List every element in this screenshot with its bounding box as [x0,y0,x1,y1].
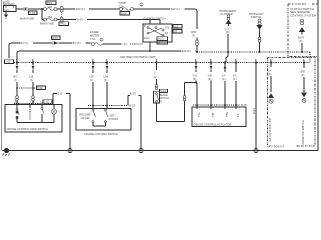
ground G1 (body ground) [2,148,10,156]
cruise control unit label [120,55,156,59]
svg-text:(F): (F) [192,34,195,38]
svg-text:FOR M/T: FOR M/T [296,2,307,6]
svg-text:B (I): B (I) [58,92,63,96]
connector gang B-03 cruise switch [88,104,136,108]
splice joint J1 [68,148,72,152]
svg-text:IGNITION SWITCH: IGNITION SWITCH [143,17,166,21]
svg-text:X-04: X-04 [121,11,127,15]
A/T control unit branch [268,93,274,141]
wire B/Y meter feed [9,41,52,58]
svg-text:SWITCH: SWITCH [251,15,261,19]
wire + inline connectors into main switch [16,88,35,105]
svg-text:B/R: B/R [301,70,305,74]
inhibitor switch branch [301,93,307,145]
wire B (I) main switch ground bracket [53,92,70,151]
svg-text:1-05: 1-05 [5,60,11,64]
unit pin 6 (actuator 1) [193,58,198,82]
svg-text:W/R (F): W/R (F) [171,7,180,11]
svg-text:Y/B: Y/B [208,74,212,78]
svg-text:L/Y: L/Y [226,27,230,31]
cruise control switch SW3 [76,109,131,136]
unit pin 8 (speed signal) [222,61,230,104]
FOR M/T dashed box [288,2,318,56]
page right border [317,0,319,151]
svg-text:MAIN FUSE: MAIN FUSE [20,17,34,21]
svg-text:ACC: ACC [144,36,150,40]
node actuator feed [195,82,197,105]
wire B/W (F) ignition feed to cruise unit [17,49,197,62]
instrument cluster [220,9,237,63]
unit pin 11 (A/T control) [268,58,273,92]
svg-text:CLUSTER: CLUSTER [221,12,233,16]
svg-text:METER: METER [90,33,99,37]
connector B-01 arrow [52,36,91,45]
svg-text:W (F): W (F) [77,18,84,22]
svg-text:X-02: X-02 [60,22,66,26]
svg-text:(F): (F) [268,72,271,76]
svg-text:L/R: L/R [90,75,94,79]
svg-text:B: B [158,40,160,44]
svg-text:(F): (F) [222,77,225,81]
brake switch S-04 [154,85,170,104]
svg-text:(I): (I) [90,78,93,82]
wires into ignition switch [149,19,160,24]
svg-text:ST: ST [174,29,178,33]
inline connector X-01 [24,7,42,15]
svg-text:L (F): L (F) [122,42,128,46]
svg-text:7.5A: 7.5A [90,37,96,41]
svg-text:B/Y: B/Y [14,75,18,79]
splice joint J3 [254,148,258,152]
connector gang B-02 main switch [16,86,45,90]
wire W/R (F) to stoplight feed [134,7,198,29]
wire ignition to B/W feed [149,42,151,52]
fuse STOP 15A [119,1,143,15]
unit pin 4 (L/W) [104,58,109,109]
svg-text:Y/G: Y/G [197,113,201,117]
resume/accel switch [80,109,96,126]
svg-text:2-02: 2-02 [44,100,50,104]
cruise control main switch SW2 [5,101,62,132]
label MAIN FUSE (fuse box) [40,22,54,26]
ground bus wire [2,150,318,152]
unit pin 10 (ground B) [252,58,257,151]
cruise control actuator M1 [192,103,247,127]
cruise control unit dotted line [14,62,310,64]
svg-text:12V: 12V [4,8,9,12]
svg-text:(I): (I) [14,78,17,82]
svg-text:B: B [144,24,146,28]
ignition switch label [143,17,166,21]
ignition switch SW1 [143,24,172,42]
svg-text:CRUISE CONTROL UNIT: CRUISE CONTROL UNIT [120,55,156,59]
svg-text:Y/L: Y/L [236,113,240,117]
svg-text:(F): (F) [299,39,302,43]
svg-text:(F): (F) [233,77,236,81]
svg-text:CONTROL SYSTEM: CONTROL SYSTEM [290,13,316,17]
svg-text:BTN: BTN [47,1,52,5]
svg-text:DIODE/: DIODE/ [90,30,99,34]
svg-text:W/R (F): W/R (F) [76,7,85,11]
svg-text:(I): (I) [104,78,107,82]
svg-text:IG1: IG1 [165,26,170,30]
label MAIN FUSE (fusible link) [20,17,34,21]
svg-text:ACC: ACC [158,37,164,41]
illumination lamp L1 [52,105,57,123]
wire W/R vertical drop to stop bus [191,30,198,53]
connector B-02 tag at main switch ground pin [14,100,53,104]
wire B (F) cruise switch ground [128,92,141,151]
fuse F2 15A [42,18,60,21]
svg-text:/ACCEL: /ACCEL [81,116,91,120]
svg-text:B-01: B-01 [52,36,58,40]
main switch contacts [16,105,54,123]
stoplight switch [249,12,264,53]
svg-text:B (F): B (F) [130,92,136,96]
clutch switch (see engine control system) [290,7,316,53]
wire W/R (F) top feed [63,7,119,11]
page left border [1,0,3,151]
fuse F1 30A [42,8,60,11]
svg-text:RESUME: RESUME [80,113,91,117]
inline connector pair upper wire [60,7,63,12]
svg-text:Y/G: Y/G [193,74,197,78]
svg-text:(F): (F) [208,77,211,81]
svg-text:INHIBITOR SWITCH: INHIBITOR SWITCH [301,120,305,144]
unit pin 9 (actuator 4) [233,58,241,105]
ignition switch terminal label boxes [157,24,182,44]
unit pin 5 (brake switch feed) [154,58,195,84]
svg-text:CRUISE CONTROL ACTUATOR: CRUISE CONTROL ACTUATOR [194,122,232,126]
splice joint J2 [139,148,143,152]
svg-text:B-16: B-16 [241,103,247,107]
svg-text:Y: Y [154,72,156,76]
svg-text:CRUISE CONTROL MAIN SWITCH: CRUISE CONTROL MAIN SWITCH [7,127,48,131]
svg-text:B-03: B-03 [130,104,136,108]
svg-text:STOP: STOP [119,1,126,5]
svg-text:(F): (F) [301,73,304,77]
svg-text:B/W (F): B/W (F) [182,49,191,53]
ground (battery negative) [4,12,8,20]
fuse 15A label [48,15,53,19]
svg-text:A/T CONTROL UNIT: A/T CONTROL UNIT [268,117,272,141]
svg-text:(F): (F) [226,30,229,34]
svg-text:CRUISE CONTROL SWITCH: CRUISE CONTROL SWITCH [84,132,118,136]
svg-text:(F): (F) [154,75,157,79]
svg-text:B/Y (I): B/Y (I) [21,41,28,45]
connector label 1-05 [5,60,14,64]
svg-text:MAIN FUSE: MAIN FUSE [40,22,54,26]
unit pin 3 (L/R) [90,58,95,109]
fuse METER 7.5A [90,30,143,46]
svg-text:L/Y: L/Y [268,69,272,73]
svg-text:B/Y (F): B/Y (F) [73,41,81,45]
unit pin 2 (L/B) [30,58,35,88]
svg-text:BG/V: BG/V [298,36,304,40]
node: junction feeding both fuses [41,8,43,20]
unit pin 12 (inhibitor) [301,58,306,92]
svg-text:L/Y: L/Y [222,74,226,78]
svg-text:L/W: L/W [104,75,109,79]
svg-text:Y/B: Y/B [211,113,215,117]
stop/clutch dotted bus [197,52,310,62]
svg-text:(F): (F) [193,77,196,81]
svg-text:/COAST: /COAST [109,117,119,121]
svg-text:FOR A/T: FOR A/T [274,144,285,148]
connector gang dashed link [59,12,69,26]
svg-text:B-02: B-02 [37,86,43,90]
svg-text:B (F): B (F) [252,108,256,114]
FOR A/T dashed box [268,58,316,149]
svg-text:(I): (I) [30,78,33,82]
svg-text:Y/W: Y/W [225,112,229,117]
svg-text:X-01: X-01 [29,11,35,15]
svg-text:S-04: S-04 [160,89,166,93]
battery B+ [3,0,16,12]
wire W (F) lower feed [63,18,160,22]
unit pin 1 (B/Y) [14,58,19,88]
wire battery to main fuse [16,8,24,10]
svg-text:L/B: L/B [30,75,34,79]
wire brake switch return to actuator [157,83,197,122]
fuse 30A label box [46,1,56,9]
unit pin 7 (actuator 2) [208,58,213,105]
svg-text:Y/L: Y/L [233,74,237,78]
svg-text:SET: SET [110,114,115,118]
inline connector pair lower wire [60,17,63,22]
set/coast switch [93,109,119,126]
svg-text:IG1: IG1 [174,24,179,28]
svg-text:ST: ST [165,31,169,35]
svg-text:W/R: W/R [191,30,196,34]
